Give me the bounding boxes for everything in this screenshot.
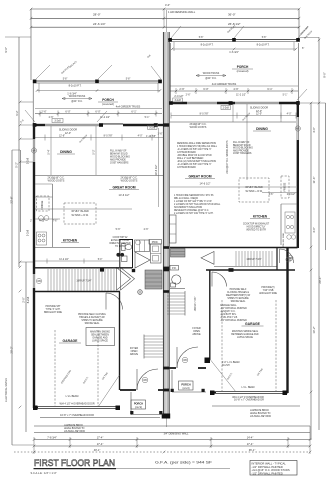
svg-text:2'-0 1/2": 2'-0 1/2" [174, 95, 183, 98]
svg-text:5'-4": 5'-4" [47, 149, 51, 154]
svg-text:SEAL BETWEEN: SEAL BETWEEN [91, 334, 109, 337]
svg-text:17'-4": 17'-4" [247, 442, 254, 446]
svg-text:20'-1": 20'-1" [318, 276, 322, 283]
svg-text:7'-8 3/4": 7'-8 3/4" [47, 436, 57, 440]
svg-text:PROVIDE SELF: PROVIDE SELF [230, 289, 247, 291]
svg-text:17'-4": 17'-4" [97, 442, 104, 446]
svg-text:SHIMS TO ENSURE: SHIMS TO ENSURE [81, 320, 103, 322]
svg-text:BEAM W/ SOLID: BEAM W/ SOLID [110, 153, 128, 156]
svg-text:-6 MIL POLY V.B.: -6 MIL POLY V.B. [220, 317, 238, 319]
svg-text:SMOKE SEAL: SMOKE SEAL [85, 322, 101, 325]
svg-text:-R12 (x2) SOUND BATT INSULATIO: -R12 (x2) SOUND BATT INSULATION [177, 160, 216, 163]
svg-text:PORCH: PORCH [181, 383, 190, 387]
svg-text:5'-0": 5'-0" [98, 259, 103, 261]
svg-text:VENTED TO EXTR: VENTED TO EXTR [246, 230, 266, 232]
svg-text:L.V.L. BEAM: L.V.L. BEAM [242, 386, 255, 389]
svg-text:2'-0 1/2": 2'-0 1/2" [287, 194, 296, 196]
svg-text:16R UP 7 3/4": 16R UP 7 3/4" [246, 258, 261, 261]
svg-text:-2 LAYERS OF 5/8" GW TYPE 'X': -2 LAYERS OF 5/8" GW TYPE 'X' [177, 148, 212, 151]
svg-text:RESILIENT CHANNEL @16" O.C.: RESILIENT CHANNEL @16" O.C. [174, 209, 209, 212]
svg-text:WOOD JOISTS: WOOD JOISTS [48, 180, 65, 183]
svg-text:FIRST FLOOR PLAN: FIRST FLOOR PLAN [34, 458, 115, 469]
svg-text:(covered): (covered) [237, 69, 249, 73]
svg-text:KITCHEN: KITCHEN [253, 215, 268, 219]
svg-text:LIVING SPACE: LIVING SPACE [237, 336, 253, 339]
svg-text:INTERIOR WALL - TYPICAL: INTERIOR WALL - TYPICAL [252, 461, 287, 465]
svg-text:5'-2": 5'-2" [15, 162, 19, 168]
svg-text:6'-0": 6'-0" [95, 110, 100, 114]
svg-text:8'-0 7/8": 8'-0 7/8" [200, 113, 209, 116]
svg-text:8-2x6: 8-2x6 [26, 296, 30, 303]
svg-text:-2x4 @16" O.C. WOOD STUDS: -2x4 @16" O.C. WOOD STUDS [252, 468, 290, 472]
svg-text:11'-6": 11'-6" [312, 177, 316, 184]
svg-text:GARAGE: GARAGE [245, 322, 261, 326]
svg-text:17'-4": 17'-4" [97, 436, 104, 440]
svg-text:10'-2": 10'-2" [312, 326, 316, 333]
svg-text:-2 LAYERS OF 5/8" GW TYPE 'X': -2 LAYERS OF 5/8" GW TYPE 'X' [177, 163, 212, 166]
svg-text:-R22 BATT INS.: -R22 BATT INS. [220, 313, 237, 316]
svg-text:WOOD TRUSS: WOOD TRUSS [203, 72, 220, 75]
svg-text:36"x84" ISLAND: 36"x84" ISLAND [71, 210, 89, 213]
svg-text:1 LAYER OF 5/8" GW TYPE 'X' GY: 1 LAYER OF 5/8" GW TYPE 'X' GYP. [174, 200, 212, 203]
svg-text:5'-8": 5'-8" [63, 79, 68, 81]
svg-text:1 HOUR FIRE(STC 56) DBL 2x4 WA: 1 HOUR FIRE(STC 56) DBL 2x4 WALL [177, 145, 218, 148]
svg-text:2 LAYERS OF 5/8" T&G WOOD STUD: 2 LAYERS OF 5/8" T&G WOOD STUD WALL [174, 203, 221, 206]
svg-text:@24" O.C.: @24" O.C. [71, 100, 83, 103]
svg-text:FILL IN ABV OF: FILL IN ABV OF [110, 150, 127, 153]
svg-text:3-2x8: 3-2x8 [54, 120, 61, 123]
svg-text:4'-0" L.V.L BEAM: 4'-0" L.V.L BEAM [222, 361, 240, 364]
svg-text:16R UP 7 3/4": 16R UP 7 3/4" [195, 297, 197, 312]
svg-text:-1/2" DRYWALL PAINTED: -1/2" DRYWALL PAINTED [220, 307, 247, 310]
svg-text:FRIDGE: FRIDGE [42, 200, 44, 209]
svg-text:DW. KB. SINK: DW. KB. SINK [283, 232, 285, 247]
svg-text:2X10@16" O.C. WOOD JOISTS: 2X10@16" O.C. WOOD JOISTS [227, 140, 229, 174]
svg-text:14'-6 1/2": 14'-6 1/2" [200, 182, 211, 186]
svg-text:AND EACH SIDE: AND EACH SIDE [259, 292, 277, 295]
svg-text:LVL/WALL BEYOND: LVL/WALL BEYOND [250, 415, 271, 418]
svg-text:16R UP 7 3/4": 16R UP 7 3/4" [76, 280, 91, 283]
svg-text:CLOSING HINGES &: CLOSING HINGES & [227, 292, 249, 294]
svg-text:COOKTOP W/ EXHAUST: COOKTOP W/ EXHAUST [243, 223, 270, 226]
svg-text:JOIST HANGERS: JOIST HANGERS [233, 152, 252, 155]
svg-text:GYPSUM BOARD: GYPSUM BOARD [177, 151, 196, 154]
svg-text:MAINTAIN SMOKE: MAINTAIN SMOKE [90, 331, 110, 334]
svg-text:LIVING SPACE: LIVING SPACE [92, 340, 108, 343]
svg-text:BEAM W/ SOLID: BEAM W/ SOLID [233, 144, 251, 147]
svg-text:1 HOUR FIRE SEPARATION / STC 5: 1 HOUR FIRE SEPARATION / STC 56 [174, 194, 214, 197]
svg-text:FLUSH: FLUSH [222, 365, 230, 367]
svg-text:22'-8": 22'-8" [10, 196, 14, 203]
svg-text:5'-8": 5'-8" [126, 79, 131, 81]
svg-text:P.R.: P.R. [172, 267, 177, 270]
svg-text:14'-6 1/2": 14'-6 1/2" [119, 193, 130, 197]
svg-text:4'-10": 4'-10" [39, 221, 45, 223]
svg-text:1'-6 3/4": 1'-6 3/4" [229, 50, 239, 54]
svg-text:2'-6": 2'-6" [144, 228, 149, 231]
svg-text:BETWEEN GARAGE AND: BETWEEN GARAGE AND [231, 333, 259, 336]
svg-text:(covered): (covered) [102, 102, 114, 106]
svg-text:3-2x8: 3-2x8 [174, 99, 181, 102]
svg-text:36'-1": 36'-1" [249, 448, 256, 452]
svg-text:8-2x10 P.T.: 8-2x10 P.T. [201, 43, 214, 47]
svg-text:12'-0": 12'-0" [65, 132, 71, 135]
svg-text:WOOD JOISTS: WOOD JOISTS [190, 126, 207, 129]
svg-text:4'-0": 4'-0" [312, 227, 316, 233]
svg-text:6'-1": 6'-1" [267, 87, 272, 91]
svg-text:W/A 4 1/2" # OVERHEAD DR: W/A 4 1/2" # OVERHEAD DR [232, 396, 264, 399]
svg-text:2'-0": 2'-0" [22, 297, 26, 303]
svg-text:4'-0": 4'-0" [165, 3, 170, 7]
svg-text:PORCH: PORCH [134, 402, 143, 406]
svg-text:G.F.A. (per side) = 944 SF: G.F.A. (per side) = 944 SF [155, 461, 213, 465]
svg-text:PROVIDE(?): PROVIDE(?) [261, 287, 274, 289]
svg-text:8'-0 7/8": 8'-0 7/8" [104, 135, 113, 138]
svg-text:3-2x8: 3-2x8 [149, 127, 156, 130]
svg-text:FRIDGE: FRIDGE [285, 182, 287, 191]
svg-text:2'-6": 2'-6" [179, 87, 184, 91]
svg-text:ABOVE: ABOVE [192, 333, 201, 336]
svg-text:5'-8": 5'-8" [199, 37, 204, 39]
svg-text:PWD.: PWD. [152, 241, 159, 244]
svg-text:1 HR DEMISING WALL: 1 HR DEMISING WALL [168, 10, 196, 14]
svg-text:12'-0": 12'-0" [256, 113, 262, 116]
svg-text:PROVIDE SELF CLOSING: PROVIDE SELF CLOSING [78, 314, 106, 316]
svg-text:DINING: DINING [60, 150, 72, 154]
svg-text:14'-4": 14'-4" [247, 436, 254, 440]
svg-text:PROVIDE 5/8": PROVIDE 5/8" [46, 306, 61, 308]
svg-text:2 LAYERS OF 5/8" GW TYPE 'X' G: 2 LAYERS OF 5/8" GW TYPE 'X' GYP. [174, 212, 214, 215]
svg-text:TYPE 'X' GYP.: TYPE 'X' GYP. [46, 309, 61, 311]
svg-text:WOOD JOISTS: WOOD JOISTS [121, 180, 138, 183]
svg-text:5'-2": 5'-2" [92, 149, 96, 154]
svg-text:20'-2": 20'-2" [10, 346, 14, 353]
svg-text:4'-0": 4'-0" [312, 127, 316, 133]
svg-text:5'-6": 5'-6" [116, 228, 121, 231]
svg-text:-1/2" DRYWALL PAINTED: -1/2" DRYWALL PAINTED [252, 465, 283, 469]
svg-text:9'-2": 9'-2" [15, 110, 19, 115]
svg-text:LAMINATE BRICK: LAMINATE BRICK [64, 424, 83, 427]
svg-text:GARAGE: GARAGE [63, 339, 79, 343]
svg-text:9'-0": 9'-0" [323, 72, 327, 78]
svg-text:LEVEL BOLTED TO: LEVEL BOLTED TO [64, 428, 85, 430]
svg-text:GREAT ROOM: GREAT ROOM [188, 175, 211, 179]
svg-text:HOOD DIRECTLY: HOOD DIRECTLY [247, 227, 266, 229]
svg-text:16'-8" x 7' OVERHEAD DOOR: 16'-8" x 7' OVERHEAD DOOR [60, 414, 94, 417]
svg-text:4x4 GIRDER TRUSS: 4x4 GIRDER TRUSS [212, 82, 237, 86]
svg-text:GREAT ROOM: GREAT ROOM [112, 186, 135, 190]
svg-text:-1/2" DRYWALL PAINTED: -1/2" DRYWALL PAINTED [220, 319, 247, 322]
svg-text:3-2x8: 3-2x8 [27, 229, 30, 236]
svg-text:AND PROVIDE: AND PROVIDE [110, 159, 126, 162]
svg-text:6": 6" [302, 47, 304, 50]
svg-text:MAINTAIN SMOKE SEAL: MAINTAIN SMOKE SEAL [232, 330, 259, 333]
svg-text:L.V.L BEAM: L.V.L BEAM [66, 395, 79, 398]
svg-text:BRD EACH SIDE: BRD EACH SIDE [44, 311, 62, 314]
svg-text:12'-6": 12'-6" [59, 135, 65, 138]
svg-text:FILL IN ABV OF: FILL IN ABV OF [233, 141, 250, 144]
svg-text:COOKTOP W/: COOKTOP W/ [113, 237, 128, 239]
svg-text:3'-6": 3'-6" [269, 194, 274, 196]
svg-text:8-2x10 P.T.: 8-2x10 P.T. [257, 43, 270, 47]
svg-text:DINING: DINING [256, 127, 268, 131]
svg-text:5'-1": 5'-1" [283, 93, 288, 96]
svg-text:9'-0": 9'-0" [4, 47, 8, 53]
svg-text:40'-1": 40'-1" [94, 448, 101, 452]
svg-text:GARAGE WALL: GARAGE WALL [220, 304, 237, 307]
svg-text:LEVEL BOLTED TO: LEVEL BOLTED TO [250, 413, 271, 415]
svg-text:DBL 2x4 WALL / REQD: DBL 2x4 WALL / REQD [174, 197, 198, 200]
svg-text:3/4" DEMISING WALL: 3/4" DEMISING WALL [164, 433, 189, 436]
svg-text:WEATHERSTRIP(?) W/: WEATHERSTRIP(?) W/ [226, 294, 251, 297]
svg-text:SOUNDBATT INSULATION: SOUNDBATT INSULATION [174, 206, 203, 209]
svg-text:WOOD TRUSS: WOOD TRUSS [69, 95, 86, 98]
svg-text:7/16" OSB: 7/16" OSB [263, 290, 274, 292]
svg-text:36'-0": 36'-0" [228, 13, 236, 17]
svg-text:W/A 4 1/2" # OVERHEAD DOOR: W/A 4 1/2" # OVERHEAD DOOR [59, 403, 94, 406]
svg-text:DEMISING WALL FIRE SEPARATION: DEMISING WALL FIRE SEPARATION [177, 142, 216, 145]
svg-text:JOIST HANGERS: JOIST HANGERS [110, 162, 129, 165]
svg-text:11'-2 1/2": 11'-2 1/2" [59, 259, 69, 261]
svg-text:6'-0": 6'-0" [65, 110, 70, 114]
svg-text:14'-6 1/2": 14'-6 1/2" [154, 164, 158, 175]
svg-text:7'-6": 7'-6" [53, 221, 58, 223]
svg-text:28'-0": 28'-0" [93, 13, 101, 17]
svg-text:WOOD BLOCKING: WOOD BLOCKING [110, 157, 130, 159]
svg-text:1'-6": 1'-6" [158, 133, 163, 136]
svg-text:SMOKE SEAL: SMOKE SEAL [231, 300, 247, 303]
svg-text:S.C.A.L.E : 1/4" = 1'-0": S.C.A.L.E : 1/4" = 1'-0" [31, 471, 57, 475]
svg-text:2'-6": 2'-6" [41, 110, 46, 114]
svg-text:W/ SINK + D.W.: W/ SINK + D.W. [71, 214, 88, 217]
svg-text:6'-1": 6'-1" [131, 110, 136, 114]
svg-text:11'-2 1/2": 11'-2 1/2" [236, 93, 246, 96]
svg-text:3-2x8: 3-2x8 [27, 157, 30, 164]
svg-text:5'-1": 5'-1" [145, 116, 150, 119]
svg-text:4x4 GIRDER TRUSS: 4x4 GIRDER TRUSS [116, 105, 141, 109]
svg-text:24'-6 1/4": 24'-6 1/4" [93, 22, 106, 26]
svg-text:4'-0": 4'-0" [287, 113, 292, 116]
svg-text:GYPSUM BOARD: GYPSUM BOARD [177, 166, 196, 169]
svg-text:WALL 1" GAP BETWEEN: WALL 1" GAP BETWEEN [177, 157, 204, 160]
svg-text:4'-0": 4'-0" [138, 135, 143, 138]
svg-text:@24" O.C.: @24" O.C. [205, 77, 217, 80]
svg-text:(cov'd): (cov'd) [135, 406, 142, 409]
svg-text:SHIMS TO ENSURE: SHIMS TO ENSURE [227, 298, 249, 300]
svg-text:(cov'd): (cov'd) [182, 387, 189, 390]
svg-text:-1/2" DRYWALL PAINTED: -1/2" DRYWALL PAINTED [252, 472, 283, 476]
svg-text:8-2x10 P.T.: 8-2x10 P.T. [69, 84, 82, 88]
svg-text:4'-6": 4'-6" [233, 87, 238, 91]
svg-text:LAMINATE BRICK: LAMINATE BRICK [250, 409, 269, 412]
svg-text:2'-6": 2'-6" [186, 93, 191, 96]
svg-text:W/ SINK + D.W.: W/ SINK + D.W. [245, 190, 262, 193]
svg-text:-DOUBLE ROW OF 2x4 #2 STUD: -DOUBLE ROW OF 2x4 #2 STUD [177, 155, 212, 157]
svg-text:-2x6@16" O.C.: -2x6@16" O.C. [220, 311, 236, 313]
svg-text:WOOD BLOCKING: WOOD BLOCKING [233, 148, 253, 150]
svg-text:ELECTRICAL METER: ELECTRICAL METER [5, 378, 8, 402]
svg-text:GARAGE AND: GARAGE AND [92, 337, 108, 340]
svg-text:6'-0": 6'-0" [203, 87, 208, 91]
svg-text:36"x84" ISLAND: 36"x84" ISLAND [245, 186, 263, 189]
svg-text:ABOVE: ABOVE [130, 353, 139, 356]
svg-text:2-2x8: 2-2x8 [223, 107, 230, 110]
svg-text:HINGES & KEYED(?) W/: HINGES & KEYED(?) W/ [79, 317, 105, 319]
svg-text:5'-8": 5'-8" [262, 37, 267, 39]
svg-text:KITCHEN: KITCHEN [63, 239, 78, 243]
